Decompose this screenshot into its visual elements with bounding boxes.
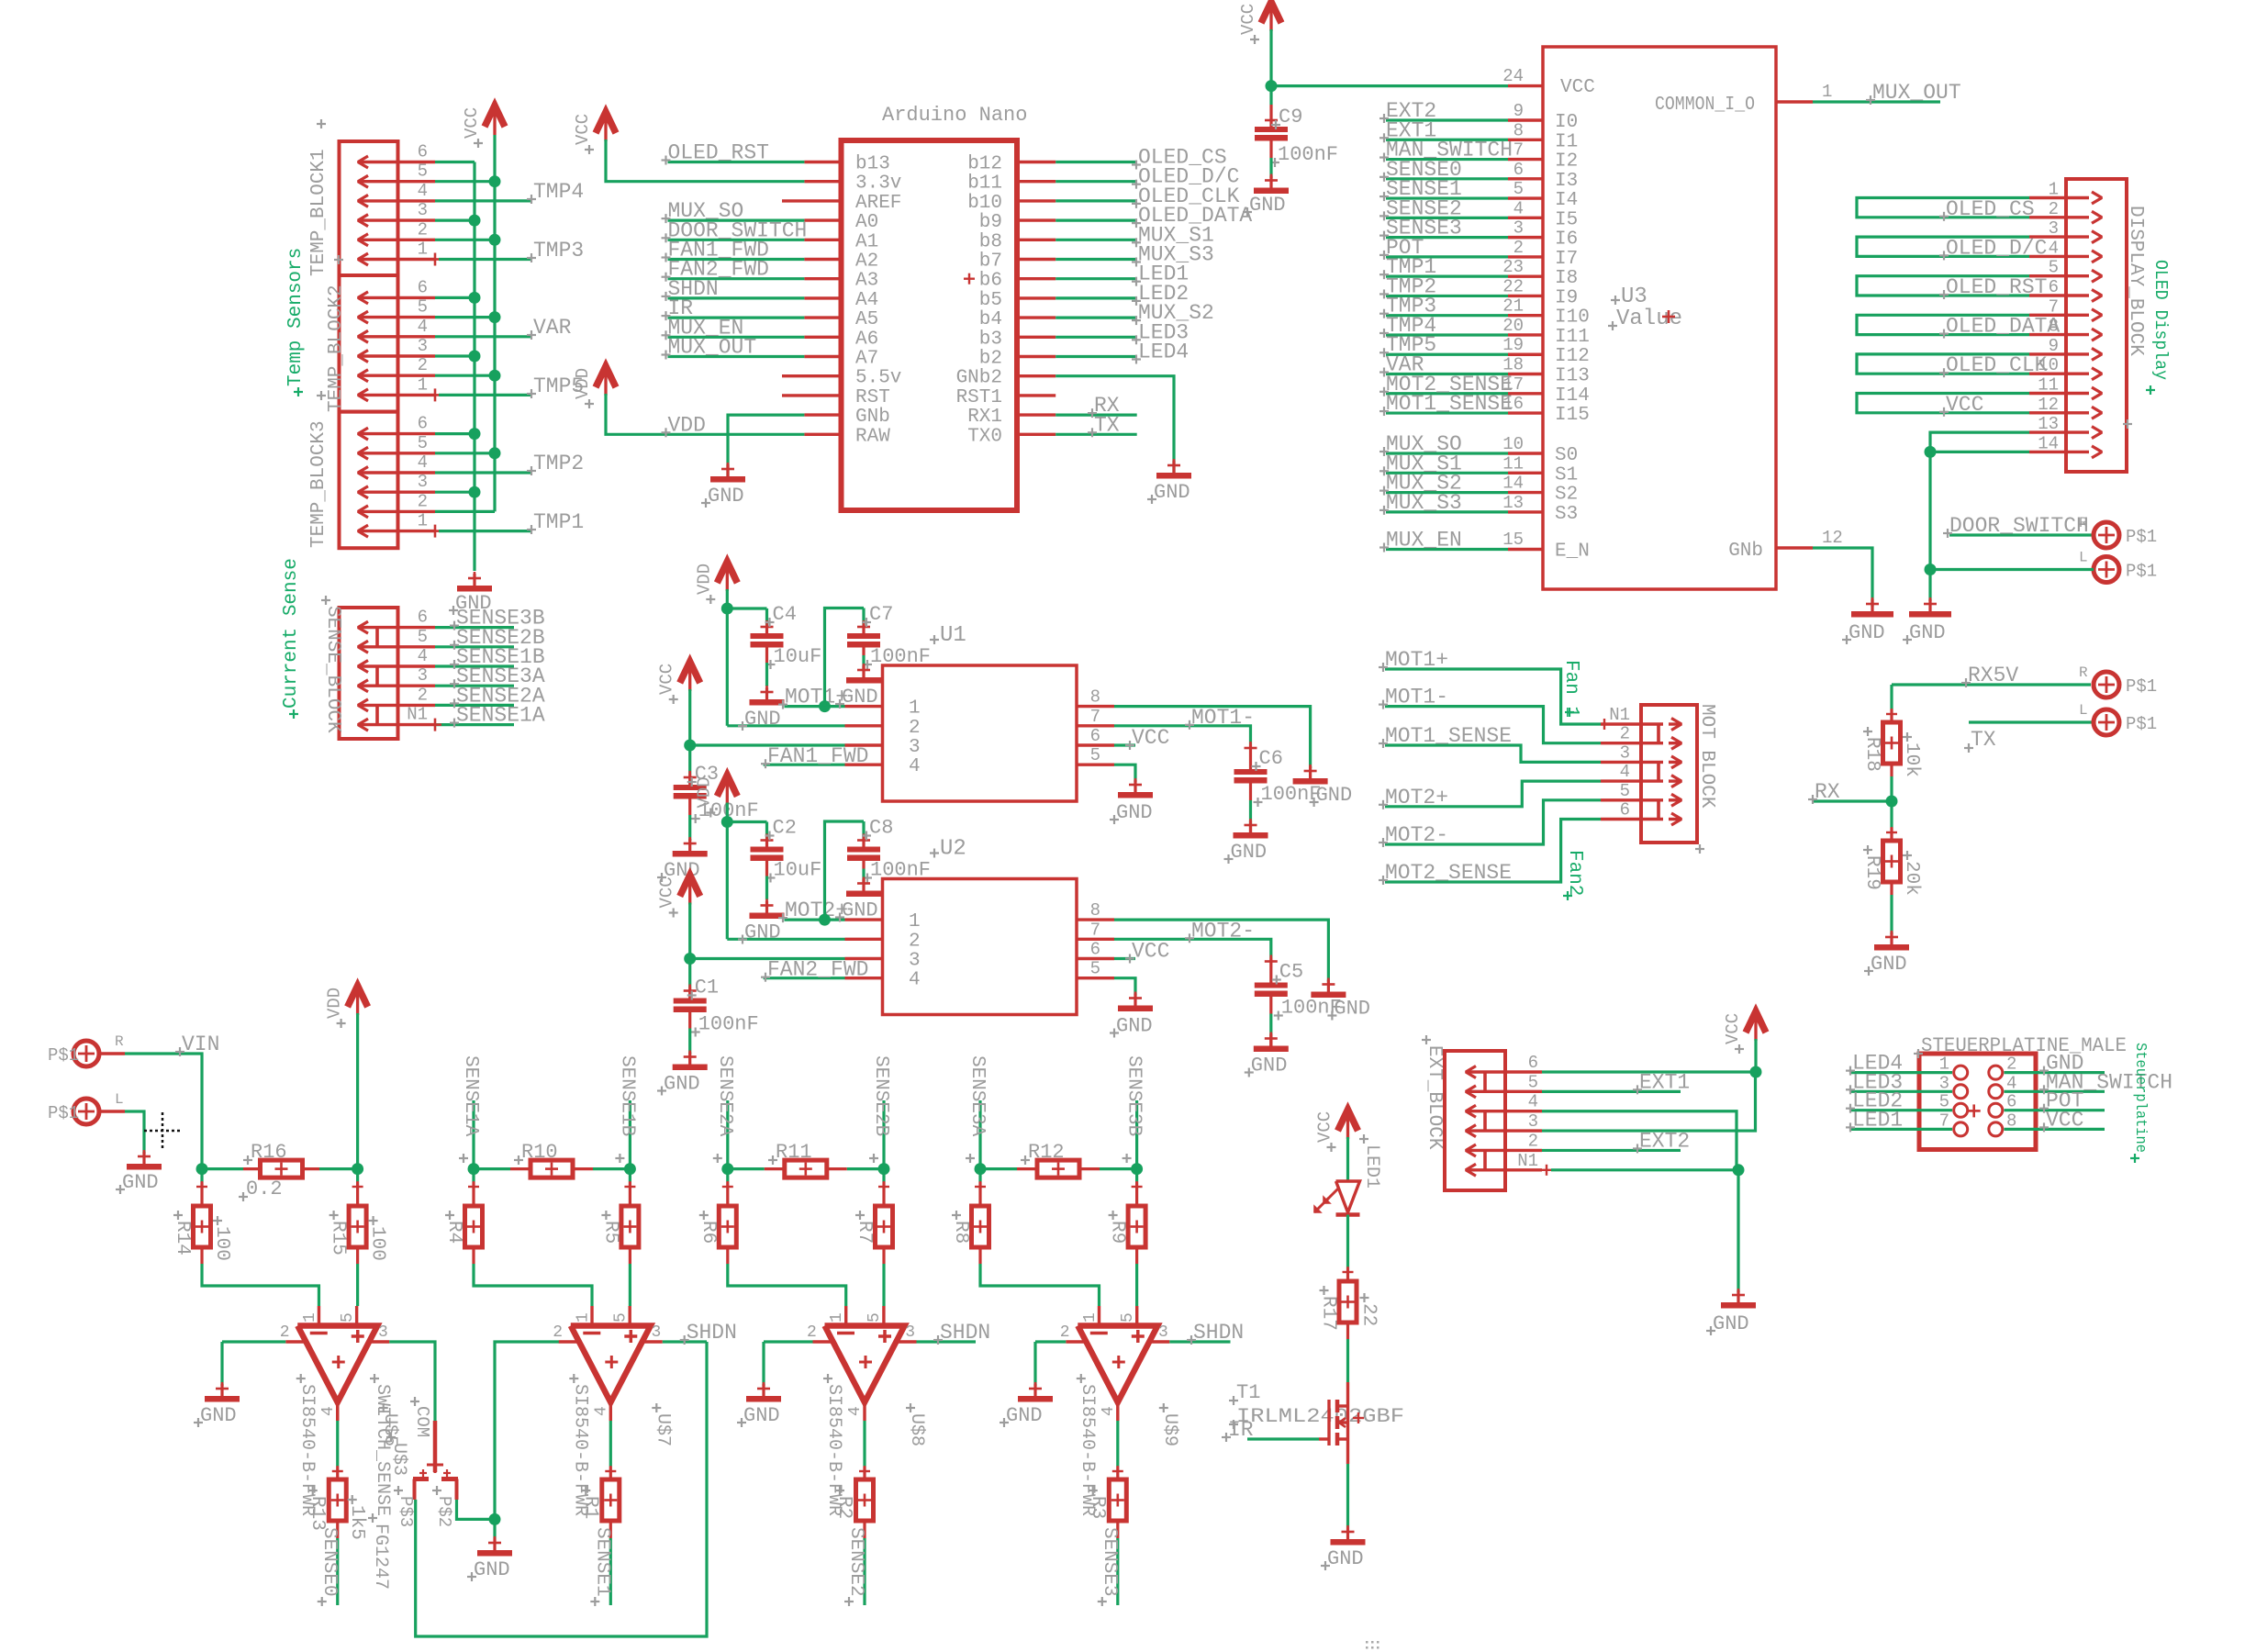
svg-text:b5: b5 <box>979 290 1002 311</box>
svg-text:100nF: 100nF <box>1278 143 1338 166</box>
svg-text:SENSE1A: SENSE1A <box>456 704 545 728</box>
svg-text:L: L <box>115 1091 124 1108</box>
power VCC (LED) <box>1338 1110 1358 1131</box>
svg-text:9: 9 <box>2049 336 2059 356</box>
svg-text:GNb: GNb <box>1728 541 1763 562</box>
ground (U3) <box>1871 599 1873 617</box>
connector EXT_BLOCK <box>1445 1051 1505 1190</box>
pin 3 of U$5 <box>369 1340 389 1343</box>
wire display gnd loop <box>1930 432 2029 601</box>
resistor R2 <box>863 1421 866 1467</box>
svg-text:COM: COM <box>412 1406 432 1437</box>
svg-text:A4: A4 <box>855 290 878 311</box>
wire TMP4 <box>1386 333 1508 336</box>
svg-text:VCC: VCC <box>1946 393 1983 417</box>
svg-text:4: 4 <box>418 317 428 337</box>
capacitor C6 100nF <box>1249 744 1252 769</box>
svg-text:OLED_CS: OLED_CS <box>1946 197 2035 221</box>
svg-text:LED1: LED1 <box>1361 1144 1382 1189</box>
svg-text:C2: C2 <box>773 817 797 840</box>
svg-text:VCC: VCC <box>657 876 677 908</box>
svg-text:STEUERPLATINE_MALE: STEUERPLATINE_MALE <box>1921 1034 2127 1057</box>
pin I6 (3) of U3 <box>1508 236 1543 239</box>
wire LED3 <box>1850 1090 1952 1093</box>
pin 2 of STEUERPLATINE_MALE <box>1989 1066 2003 1079</box>
svg-text:6: 6 <box>418 414 428 434</box>
svg-text:R16: R16 <box>251 1141 287 1164</box>
svg-text:I11: I11 <box>1555 327 1590 348</box>
LED LED1 <box>1336 1181 1360 1212</box>
pin A1 (left) <box>804 239 841 241</box>
svg-text:19: 19 <box>1502 335 1524 355</box>
svg-text:4: 4 <box>319 1406 338 1416</box>
wire LED4 from Arduino <box>1055 355 1136 358</box>
wire MOT1- <box>1385 707 1601 743</box>
resistor R19 20k <box>1890 828 1893 841</box>
ground (C1) <box>688 1053 691 1070</box>
pin 2 of EXT_BLOCK <box>1466 1149 1542 1152</box>
pin I7 (2) of U3 <box>1508 255 1543 258</box>
svg-text:MOT1+: MOT1+ <box>785 686 848 709</box>
svg-text:L: L <box>2079 550 2088 566</box>
svg-text:U$3: U$3 <box>388 1443 409 1476</box>
pin 2 of U$8 <box>813 1340 833 1343</box>
svg-text:Arduino Nano: Arduino Nano <box>882 104 1027 127</box>
svg-text:FG1247: FG1247 <box>370 1524 391 1590</box>
svg-text:1: 1 <box>909 698 921 720</box>
svg-text:GND: GND <box>200 1404 237 1427</box>
IC U2 (motor driver) <box>883 879 1078 1015</box>
svg-text:IR: IR <box>1228 1418 1254 1442</box>
svg-text:P$2: P$2 <box>434 1496 454 1527</box>
pin 1 of U1 <box>845 705 883 708</box>
svg-text:0.2: 0.2 <box>246 1178 283 1200</box>
svg-text:1: 1 <box>909 911 921 932</box>
pin 8 of U1 <box>1077 705 1114 708</box>
ground (C2) <box>765 901 768 919</box>
svg-text:R10: R10 <box>521 1141 558 1164</box>
svg-text:U3: U3 <box>1621 285 1647 309</box>
svg-text:9: 9 <box>1513 101 1524 121</box>
pin 12 of DISPLAY_BLOCK <box>2029 411 2089 414</box>
svg-text:VCC: VCC <box>1132 726 1169 750</box>
svg-text:1: 1 <box>2049 180 2059 200</box>
svg-text:13: 13 <box>2038 414 2059 434</box>
wire SENSE2A column <box>726 1100 729 1169</box>
svg-text:A0: A0 <box>855 212 878 233</box>
wire pin5 blk1 to vcc bus <box>435 180 495 183</box>
svg-text:TMP3: TMP3 <box>533 239 584 262</box>
svg-text:SHDN: SHDN <box>687 1321 737 1345</box>
wire OLED_CLK loop <box>1857 354 2029 374</box>
svg-text:4: 4 <box>2049 238 2059 258</box>
ground (U1 pin8) <box>1309 766 1312 784</box>
svg-text:R6: R6 <box>698 1221 719 1244</box>
svg-text:4: 4 <box>1513 198 1524 218</box>
wire VAR <box>435 335 532 338</box>
wire SENSE1B <box>435 664 514 667</box>
pin 2 of TEMP_BLOCK2 <box>358 374 435 377</box>
svg-text:100nF: 100nF <box>1261 783 1322 806</box>
svg-text:IRLML2402GBF: IRLML2402GBF <box>1236 1405 1404 1428</box>
pin I15 (16) of U3 <box>1508 411 1543 414</box>
wire arduino GND pin <box>728 415 804 476</box>
wire pin5 blk2 <box>435 316 495 318</box>
svg-text:6: 6 <box>1513 160 1524 180</box>
svg-text:3.3v: 3.3v <box>855 173 901 195</box>
wire SENSE1B column <box>629 1100 631 1169</box>
wire MOT1+ <box>1385 669 1601 724</box>
svg-text:b2: b2 <box>979 349 1002 370</box>
svg-text:13: 13 <box>1502 493 1524 513</box>
svg-text:Value: Value <box>1616 307 1682 331</box>
pin E_N (15) of U3 <box>1508 548 1543 551</box>
svg-text:R18: R18 <box>1861 737 1882 772</box>
wire SENSE1 <box>1386 196 1508 199</box>
svg-text:GND: GND <box>743 1404 780 1427</box>
wire MUX_EN to Arduino <box>668 336 805 339</box>
svg-text:R1: R1 <box>579 1496 600 1519</box>
wire SHDN out <box>917 1340 977 1343</box>
svg-text:b7: b7 <box>979 251 1002 273</box>
power VDD (shunt) <box>348 986 368 1007</box>
svg-text:R3: R3 <box>1087 1496 1108 1519</box>
wire OLED_D/C from Arduino <box>1055 180 1136 183</box>
wire pin3 blk3 <box>435 491 475 494</box>
wire MUX_S1 from Arduino <box>1055 239 1136 241</box>
pin S1 (11) of U3 <box>1508 472 1543 474</box>
svg-text:VDD: VDD <box>573 368 593 399</box>
wire EXT2 <box>1386 118 1508 121</box>
svg-text:20: 20 <box>1502 316 1524 336</box>
pin b4 (right) <box>1017 316 1055 318</box>
svg-text:I13: I13 <box>1555 366 1590 387</box>
svg-text:GND: GND <box>1116 1015 1153 1038</box>
svg-text:RX1: RX1 <box>967 407 1002 428</box>
svg-text:SHDN: SHDN <box>940 1321 990 1345</box>
pin b5 (right) <box>1017 296 1055 299</box>
svg-text:3: 3 <box>1158 1323 1168 1342</box>
wire MUX_S2 <box>1386 491 1508 494</box>
wire SHDN stage2 <box>663 1340 707 1343</box>
wire MOT2_SENSE <box>1386 392 1508 395</box>
svg-text:4: 4 <box>1620 762 1630 782</box>
svg-text:GND: GND <box>842 899 878 922</box>
wire OLED_D/C loop <box>1857 237 2029 256</box>
wire to op-amp in+ <box>882 1247 885 1264</box>
svg-text:23: 23 <box>1502 257 1524 277</box>
svg-text:5: 5 <box>339 1312 357 1323</box>
wire MOT1+ to pin1 of U1 <box>785 705 845 708</box>
connector TEMP_BLOCK1 <box>340 141 398 275</box>
pad P$1 VIN L <box>73 1099 99 1124</box>
svg-text:100nF: 100nF <box>1281 997 1342 1020</box>
ground (C8) <box>862 879 865 897</box>
wire SENSE2B <box>435 645 514 648</box>
connector MOT_BLOCK <box>1641 705 1697 843</box>
capacitor C8 100nF <box>862 821 865 839</box>
pin TX0 (right) <box>1017 433 1055 436</box>
svg-text:U2: U2 <box>940 837 966 862</box>
pin 3 of U$9 <box>1149 1340 1169 1343</box>
pin I5 (4) of U3 <box>1508 217 1543 219</box>
svg-text:GND: GND <box>744 708 781 731</box>
wire FAN2_FWD to pin4 U2 <box>764 977 845 979</box>
wire OLED_CLK from Arduino <box>1055 199 1136 202</box>
svg-text:TEMP_BLOCK3: TEMP_BLOCK3 <box>308 420 329 548</box>
pin A4 (left) <box>804 296 841 299</box>
resistor R8 <box>978 1169 981 1182</box>
svg-text:R: R <box>2079 664 2088 681</box>
pin 2 of DISPLAY_BLOCK <box>2029 216 2089 218</box>
wire VDD rail U2 <box>726 803 729 940</box>
pin b12 (right) <box>1017 161 1055 163</box>
resistor R4 <box>472 1169 475 1182</box>
wire VCC <box>2005 1128 2105 1131</box>
pin I8 (23) of U3 <box>1508 274 1543 277</box>
wire SENSE1A <box>435 723 514 726</box>
svg-text:OLED_RST: OLED_RST <box>668 141 769 165</box>
svg-text:GNb2: GNb2 <box>956 368 1002 389</box>
svg-text:2: 2 <box>553 1323 563 1342</box>
wire TMP1 <box>439 530 532 532</box>
wire TMP5 <box>1386 353 1508 356</box>
svg-text:6: 6 <box>1528 1053 1538 1073</box>
svg-text:VCC: VCC <box>1132 940 1169 964</box>
wire DOOR_SWITCH to Arduino <box>668 239 805 241</box>
ground (C5) <box>1269 1034 1272 1052</box>
origin crosshair <box>144 1112 181 1149</box>
wire MOT2- <box>1385 800 1601 844</box>
svg-text:OLED_RST: OLED_RST <box>1946 275 2047 299</box>
IC U3 (analog mux) <box>1543 47 1776 589</box>
svg-text:AREF: AREF <box>855 193 901 214</box>
svg-text:I0: I0 <box>1555 112 1578 133</box>
svg-text:3: 3 <box>1620 742 1630 763</box>
svg-text:100nF: 100nF <box>870 859 931 882</box>
wire pin8 U1 to gnd <box>1114 707 1311 768</box>
wire TMP2 <box>1386 295 1508 297</box>
pin 5 of TEMP_BLOCK3 <box>358 452 435 454</box>
wire OLED_CS from Arduino <box>1055 161 1136 163</box>
pin 2 of U2 <box>845 938 883 941</box>
pin 3 of SENSE_BLOCK <box>358 685 435 687</box>
pin b9 (right) <box>1017 218 1055 221</box>
svg-text:A2: A2 <box>855 251 878 273</box>
power VDD (U2) <box>717 776 737 797</box>
pin 4 of STEUERPLATINE_MALE <box>1989 1085 2003 1099</box>
svg-text:b10: b10 <box>967 193 1002 214</box>
svg-text:P$1: P$1 <box>2126 714 2157 734</box>
wire TMP4 <box>435 199 532 202</box>
svg-text:VDD: VDD <box>694 564 714 595</box>
svg-text:TX: TX <box>1094 413 1120 437</box>
svg-text:R9: R9 <box>1107 1221 1128 1244</box>
op-amp U$7 <box>571 1326 651 1403</box>
svg-text:MOT2_SENSE: MOT2_SENSE <box>1385 861 1512 885</box>
wire OLED_CS loop <box>1857 198 2029 218</box>
svg-text:C4: C4 <box>773 603 797 626</box>
svg-text:2: 2 <box>909 931 921 952</box>
pin 5 of U$9 <box>1135 1306 1138 1326</box>
svg-text:I15: I15 <box>1555 405 1590 426</box>
pin 5 of MOT_BLOCK <box>1601 798 1663 801</box>
resistor R10 <box>474 1167 510 1170</box>
wire pin6 blk1 to gnd bus <box>435 161 475 163</box>
pin 1 of TEMP_BLOCK3 <box>358 530 435 532</box>
pin b7 (right) <box>1017 258 1055 261</box>
svg-text:MOT2+: MOT2+ <box>785 899 848 922</box>
svg-text:MOT1+: MOT1+ <box>1385 648 1448 672</box>
svg-text:100nF: 100nF <box>870 645 931 668</box>
svg-text:TEMP_BLOCK1: TEMP_BLOCK1 <box>308 149 329 276</box>
wire LED2 <box>1850 1109 1952 1111</box>
svg-text:100nF: 100nF <box>698 1013 759 1036</box>
svg-text:SENSE_BLOCK: SENSE_BLOCK <box>322 606 343 733</box>
svg-text:OLED_D/C: OLED_D/C <box>1946 236 2047 260</box>
pin 7 of U1 <box>1077 724 1114 727</box>
svg-text:GND: GND <box>842 686 878 709</box>
wire VDD to pin2 of U2 <box>727 938 844 941</box>
svg-text:I5: I5 <box>1555 209 1578 230</box>
wire U$9 pin2 to gnd <box>1035 1340 1066 1343</box>
pin 7 of DISPLAY_BLOCK <box>2029 314 2089 317</box>
svg-text:MUX_S3: MUX_S3 <box>1386 491 1462 515</box>
wire to op-amp in- <box>472 1247 475 1264</box>
ground (U2 pin5) <box>1134 994 1136 1011</box>
pin GND (12) of U3 <box>1776 546 1813 549</box>
wire MUX_SO to Arduino <box>668 219 805 222</box>
svg-text:3: 3 <box>418 665 428 686</box>
ground (U1 pin5) <box>1134 780 1136 798</box>
svg-text:TMP2: TMP2 <box>533 452 584 475</box>
wire LED to R17 <box>1346 1215 1349 1268</box>
pin 4 of DISPLAY_BLOCK <box>2029 255 2089 258</box>
ground (U$8 pin2) <box>762 1384 765 1401</box>
svg-text:22: 22 <box>1502 276 1524 296</box>
wire pin5 U1 to gnd <box>1114 765 1135 782</box>
svg-text:100: 100 <box>367 1226 388 1261</box>
wire VDD rail U1 <box>726 589 729 726</box>
svg-text:C7: C7 <box>869 603 893 626</box>
wire MAN_SWITCH <box>1386 158 1508 161</box>
svg-text:RAW: RAW <box>855 426 890 447</box>
svg-text:MOT1_SENSE: MOT1_SENSE <box>1386 392 1513 416</box>
wire TX <box>1969 720 2094 723</box>
wire MOT1_SENSE <box>1385 745 1601 762</box>
pin 2 of SENSE_BLOCK <box>358 704 435 707</box>
pin I12 (19) of U3 <box>1508 353 1543 356</box>
svg-text:MOT1-: MOT1- <box>1191 706 1255 730</box>
svg-text:EXT2: EXT2 <box>1639 1129 1690 1153</box>
wire U$5 out to switch COM <box>389 1342 435 1421</box>
svg-text:C9: C9 <box>1279 106 1302 128</box>
wire SENSE2 <box>1386 217 1508 219</box>
pin 4 of U2 <box>845 977 883 979</box>
svg-text:RST1: RST1 <box>956 387 1002 408</box>
wire MUX_S3 <box>1386 510 1508 513</box>
svg-text:N1: N1 <box>407 705 428 725</box>
wire ext pin4 down <box>1542 1111 1737 1170</box>
svg-text:S2: S2 <box>1555 485 1578 506</box>
wire RX <box>1055 414 1137 417</box>
wire MUX_SO <box>1386 452 1508 454</box>
pin 5 of TEMP_BLOCK1 <box>358 180 435 183</box>
pin 10 of DISPLAY_BLOCK <box>2029 373 2089 375</box>
pin A5 (left) <box>804 316 841 318</box>
wire IR to gate <box>1247 1437 1319 1440</box>
svg-text:5: 5 <box>418 297 428 318</box>
pin 5 of U1 <box>1077 764 1114 766</box>
svg-text:VAR: VAR <box>533 316 572 340</box>
svg-text:5: 5 <box>2049 258 2059 278</box>
svg-text:FAN1_FWD: FAN1_FWD <box>767 744 868 768</box>
pin 5 of U$5 <box>355 1306 358 1326</box>
wire SENSE0 <box>1386 177 1508 180</box>
pin I0 (9) of U3 <box>1508 118 1543 121</box>
svg-text:R14: R14 <box>172 1221 193 1256</box>
wire LED2 from Arduino <box>1055 296 1136 299</box>
connector DISPLAY_BLOCK <box>2066 179 2127 472</box>
wire EXT1 <box>1542 1090 1681 1093</box>
wire to op-amp in- <box>726 1247 729 1264</box>
svg-text:SENSE3: SENSE3 <box>1099 1527 1120 1597</box>
svg-text:2: 2 <box>2049 199 2059 219</box>
ground (U2 pin8) <box>1327 980 1330 998</box>
wire U$7 pin2 to junction <box>495 1342 559 1519</box>
pin 3 of TEMP_BLOCK3 <box>358 491 435 494</box>
pin 3 of U$7 <box>642 1340 663 1343</box>
wire SENSE0 <box>336 1521 339 1538</box>
wire SENSE2 <box>863 1521 866 1538</box>
wire pin2 blk1 <box>435 239 495 241</box>
pin 3 of DISPLAY_BLOCK <box>2029 235 2089 238</box>
pin 1 of U$5 <box>318 1306 320 1326</box>
capacitor C2 10uF <box>765 822 768 839</box>
svg-text:15: 15 <box>1502 530 1524 550</box>
svg-text:TX0: TX0 <box>967 426 1002 447</box>
capacitor C1 100nF <box>688 988 691 999</box>
pin 8 of STEUERPLATINE_MALE <box>1989 1122 2003 1136</box>
svg-text:3: 3 <box>2049 218 2059 239</box>
wire RX <box>1813 799 1892 802</box>
wire arduino GND2 pin <box>1055 376 1174 473</box>
pin I2 (7) of U3 <box>1508 158 1543 161</box>
svg-text:I10: I10 <box>1555 307 1590 329</box>
pin 9 of DISPLAY_BLOCK <box>2029 352 2089 355</box>
svg-text:LED1: LED1 <box>1852 1108 1903 1132</box>
resistor R7 <box>882 1169 885 1182</box>
pin 8 of DISPLAY_BLOCK <box>2029 333 2089 336</box>
wire to op-amp in+ <box>629 1247 631 1264</box>
svg-text:SENSE0: SENSE0 <box>318 1527 340 1597</box>
pad P$1 door R <box>2094 522 2119 548</box>
svg-text:1: 1 <box>574 1312 592 1323</box>
svg-text:3: 3 <box>909 737 921 758</box>
pin VCC 24 of U3 <box>1508 84 1543 87</box>
pin 7 of STEUERPLATINE_MALE <box>1954 1122 1968 1136</box>
pin I1 (8) of U3 <box>1508 139 1543 141</box>
svg-text:6: 6 <box>1620 800 1630 820</box>
resistor R13 1k5 <box>336 1402 339 1421</box>
ground (ext) <box>1737 1290 1739 1308</box>
svg-text:U$7: U$7 <box>652 1413 673 1446</box>
capacitor C7 100nF <box>862 608 865 626</box>
svg-text:b3: b3 <box>979 329 1002 350</box>
pin I9 (22) of U3 <box>1508 295 1543 297</box>
pin 3 of U1 <box>845 743 883 746</box>
svg-text:b9: b9 <box>979 212 1002 233</box>
